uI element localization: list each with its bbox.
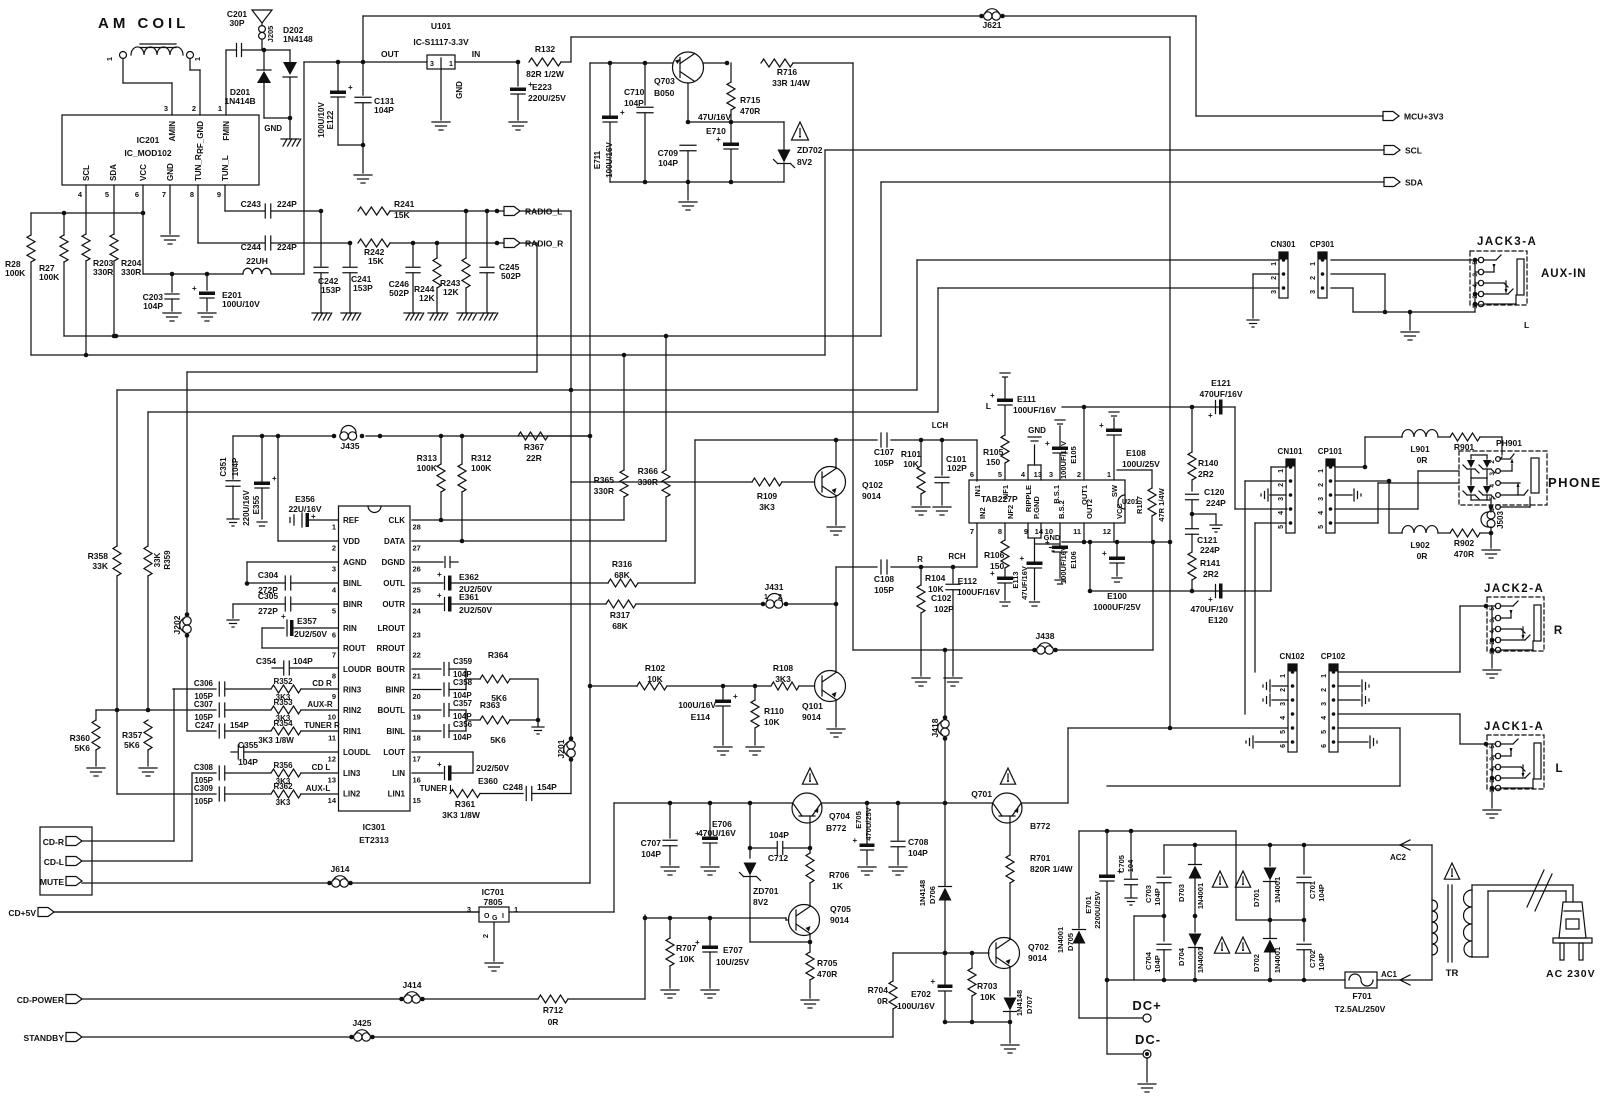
svg-text:105P: 105P: [194, 797, 213, 806]
svg-text:R241: R241: [394, 199, 415, 209]
svg-text:LOUDL: LOUDL: [343, 748, 371, 757]
capacitor C703: [1163, 845, 1165, 874]
svg-text:DC-: DC-: [1135, 1032, 1161, 1047]
svg-text:330R: 330R: [93, 267, 113, 277]
resistor R365: [623, 355, 625, 470]
wire Q102 emitter gnd: [835, 496, 837, 526]
svg-text:1: 1: [1321, 674, 1328, 678]
svg-text:100K: 100K: [5, 268, 26, 278]
input row LIN2 AUX-L: [117, 793, 216, 795]
svg-text:ZD702: ZD702: [797, 145, 823, 155]
svg-text:68K: 68K: [612, 621, 628, 631]
svg-text:1N4001: 1N4001: [1273, 947, 1282, 973]
wire E121 down to CN101 pin4: [1234, 407, 1236, 509]
svg-text:4: 4: [78, 190, 83, 199]
svg-text:7: 7: [332, 651, 336, 660]
ground: [478, 312, 496, 314]
svg-text:C703: C703: [1144, 885, 1153, 903]
svg-text:R716: R716: [777, 67, 798, 77]
svg-text:J621: J621: [983, 20, 1002, 30]
transistor Q701: [992, 793, 1022, 823]
svg-text:2R2: 2R2: [1203, 569, 1219, 579]
svg-text:1N4001: 1N4001: [1273, 877, 1282, 903]
svg-text:153P: 153P: [321, 285, 341, 295]
svg-text:3: 3: [467, 905, 471, 914]
svg-text:105P: 105P: [874, 585, 894, 595]
svg-text:C708: C708: [908, 837, 929, 847]
svg-text:100K: 100K: [471, 463, 492, 473]
wire SDA: [881, 181, 1384, 183]
wire R132 up: [570, 37, 572, 62]
svg-text:1000UF/25V: 1000UF/25V: [1093, 602, 1141, 612]
svg-text:O: O: [484, 913, 490, 920]
svg-text:CP101: CP101: [1318, 447, 1343, 456]
wire RCH link: [835, 567, 837, 604]
band wire y390: [117, 389, 917, 391]
wire J418 column: [943, 648, 948, 653]
svg-text:T2.5AL/250V: T2.5AL/250V: [1335, 1004, 1386, 1014]
svg-text:154P: 154P: [230, 721, 249, 730]
AM coil inductor: [120, 52, 127, 59]
svg-text:J418: J418: [930, 718, 940, 737]
wire CP301 pin3: [1331, 287, 1353, 289]
ground: [1491, 651, 1493, 668]
svg-text:E108: E108: [1126, 448, 1146, 458]
connector CP301: [1318, 252, 1327, 298]
svg-text:+: +: [437, 591, 442, 600]
svg-text:R366: R366: [638, 466, 659, 476]
svg-text:OUTL: OUTL: [383, 579, 405, 588]
resistor R313: [440, 436, 442, 464]
capacitor E113 P.GND: [1027, 523, 1029, 538]
input row RIN3 CD R: [173, 688, 216, 690]
svg-text:1: 1: [193, 57, 202, 61]
svg-text:GND: GND: [166, 163, 175, 181]
wire J435 rail: [233, 435, 335, 437]
svg-text:R132: R132: [535, 44, 556, 54]
bracket BOUTL/BINL: [412, 709, 441, 711]
svg-text:2: 2: [778, 594, 782, 601]
svg-text:R360: R360: [70, 733, 91, 743]
svg-text:100UF/16V: 100UF/16V: [957, 587, 1000, 597]
svg-text:+: +: [931, 977, 936, 986]
wire Q101 area: [590, 685, 637, 687]
ground: [354, 174, 372, 176]
svg-text:E113: E113: [1011, 571, 1020, 588]
input row RIN2 AUX-R: [96, 709, 216, 711]
capacitor C707: [669, 803, 671, 838]
node antenna: [262, 48, 267, 53]
resistor R106: [1004, 523, 1006, 540]
svg-text:33K: 33K: [92, 561, 108, 571]
svg-text:+: +: [1208, 595, 1213, 604]
svg-text:+: +: [281, 612, 286, 621]
wire CP102 pin2 gnd: [1338, 685, 1360, 687]
svg-text:104P: 104P: [641, 849, 661, 859]
wire coil to IC201: [122, 59, 124, 84]
svg-text:D703: D703: [1177, 884, 1186, 902]
DC- terminal: [1106, 980, 1108, 1054]
svg-text:LIN: LIN: [392, 769, 405, 778]
ground: [198, 312, 216, 314]
wire CN102 pin5: [1170, 727, 1288, 729]
svg-text:330R: 330R: [594, 486, 614, 496]
svg-text:RCH: RCH: [948, 552, 966, 561]
wire Q101 emitter gnd: [835, 700, 837, 728]
svg-text:J205: J205: [266, 26, 275, 43]
svg-text:100UF/16V: 100UF/16V: [1059, 441, 1068, 479]
capacitor E362 OUTL: [412, 582, 443, 584]
wire CP101 pin3 gnd: [1335, 494, 1352, 496]
svg-text:C355: C355: [238, 740, 259, 750]
wire CN301 pin1: [917, 259, 1279, 261]
svg-text:C701: C701: [1308, 881, 1317, 899]
capacitor C242: [320, 211, 322, 266]
svg-text:104P: 104P: [453, 733, 472, 742]
svg-text:5: 5: [1321, 730, 1328, 734]
band wire y355 SCL: [31, 354, 825, 356]
svg-text:SDA: SDA: [1405, 178, 1423, 188]
svg-text:5K6: 5K6: [124, 740, 140, 750]
svg-text:SCL: SCL: [1405, 146, 1422, 156]
flag SCL: [1384, 146, 1400, 155]
wire SCL: [825, 149, 1384, 151]
zener ZD901: [1470, 455, 1472, 459]
capacitor C705: [1130, 831, 1132, 878]
svg-text:5: 5: [1489, 607, 1496, 611]
svg-text:2: 2: [481, 934, 490, 938]
svg-text:IN: IN: [472, 49, 481, 59]
transistor Q703: [673, 52, 704, 83]
capacitor C351: [232, 436, 234, 479]
jumper J425: [349, 1035, 354, 1040]
cord to plug: [1471, 885, 1473, 890]
ground: [661, 866, 679, 868]
svg-text:+: +: [620, 108, 625, 117]
svg-text:9014: 9014: [802, 712, 821, 722]
connector CP102: [1329, 664, 1338, 752]
svg-text:100U/16V: 100U/16V: [897, 1001, 935, 1011]
svg-text:2: 2: [1489, 460, 1496, 464]
wire CD-R: [82, 840, 174, 842]
wire AGND pin3: [247, 561, 338, 563]
svg-text:R715: R715: [740, 95, 761, 105]
wire OUT1 riser: [1083, 407, 1085, 480]
svg-text:R104: R104: [925, 573, 946, 583]
svg-text:10U/25V: 10U/25V: [716, 957, 749, 967]
svg-text:2: 2: [192, 104, 196, 113]
bus AC2 row: [1164, 844, 1432, 846]
svg-text:C704: C704: [1144, 951, 1153, 970]
svg-text:9014: 9014: [830, 915, 849, 925]
svg-text:7: 7: [162, 190, 166, 199]
IC301 box ET2313: [339, 506, 411, 811]
svg-text:4: 4: [1472, 284, 1479, 288]
svg-text:R367: R367: [524, 442, 545, 452]
zener ZD701: [749, 803, 751, 858]
svg-text:IC-S1117-3.3V: IC-S1117-3.3V: [413, 37, 469, 47]
ground: [944, 677, 962, 679]
wire 3V3 feed: [303, 62, 305, 274]
svg-text:C309: C309: [194, 784, 214, 793]
svg-text:3K3 1/8W: 3K3 1/8W: [442, 810, 481, 820]
wire VCC riser: [1113, 523, 1115, 542]
wire 8V node: [688, 121, 784, 123]
resistor R359: [147, 412, 149, 546]
svg-text:104P: 104P: [658, 158, 678, 168]
resistor R703: [971, 953, 973, 968]
ground: [163, 312, 181, 314]
svg-text:IC701: IC701: [482, 887, 505, 897]
svg-text:C710: C710: [624, 87, 645, 97]
svg-text:1: 1: [105, 57, 114, 61]
svg-text:Q703: Q703: [654, 76, 675, 86]
wire CN101 pin3 gnd: [1270, 494, 1286, 496]
svg-text:J201: J201: [556, 739, 566, 758]
svg-text:3: 3: [164, 104, 168, 113]
svg-text:NF2: NF2: [1006, 505, 1015, 519]
ground: [457, 312, 475, 314]
ground: [701, 989, 719, 991]
capacitor C107: [880, 433, 882, 447]
jack JACK1-A: [1487, 735, 1544, 789]
svg-text:RIN1: RIN1: [343, 727, 362, 736]
svg-text:AC2: AC2: [1390, 853, 1407, 862]
jumper J621: [979, 14, 984, 19]
svg-text:6: 6: [1280, 744, 1287, 748]
wire D705 column: [1078, 831, 1080, 928]
svg-text:E111: E111: [1017, 394, 1036, 404]
svg-text:ZD701: ZD701: [753, 886, 779, 896]
ground stub: [1192, 513, 1216, 515]
svg-text:502P: 502P: [501, 271, 521, 281]
svg-text:CD+5V: CD+5V: [8, 908, 36, 918]
svg-text:3: 3: [1489, 757, 1496, 761]
resistor R105: [1001, 435, 1009, 463]
svg-text:R902: R902: [1454, 538, 1475, 548]
svg-text:GND: GND: [264, 124, 282, 133]
zener ZD903: [1470, 478, 1472, 485]
wire U101 gnd pin: [440, 69, 442, 120]
capacitor C108: [880, 560, 882, 574]
svg-text:R102: R102: [645, 663, 666, 673]
capacitor C712: [748, 846, 753, 851]
svg-text:TUN_L: TUN_L: [221, 155, 230, 181]
svg-text:R359: R359: [163, 550, 172, 570]
svg-text:3K3: 3K3: [276, 798, 291, 807]
resistor R108: [771, 682, 799, 690]
flags CD box: [40, 827, 92, 895]
ground: [432, 121, 450, 123]
flag RADIO_R: [504, 239, 520, 248]
svg-text:2U2/50V: 2U2/50V: [476, 763, 509, 773]
warning triangle: [792, 122, 809, 140]
svg-text:AUX-R: AUX-R: [307, 700, 333, 709]
svg-text:4: 4: [1489, 768, 1496, 772]
wire to IN2: [976, 523, 978, 567]
ground: [1001, 1044, 1019, 1046]
wire to ground: [687, 182, 689, 200]
svg-text:R356: R356: [273, 761, 293, 770]
svg-text:9: 9: [1024, 527, 1028, 536]
svg-text:VCC: VCC: [1115, 503, 1124, 519]
svg-text:3K3: 3K3: [775, 674, 791, 684]
resistor R316: [608, 579, 638, 587]
wire Q101 collector: [835, 604, 837, 673]
svg-text:RIN3: RIN3: [343, 686, 362, 695]
svg-text:15K: 15K: [368, 256, 384, 266]
svg-text:10K: 10K: [647, 674, 663, 684]
wire CP102 pin3 gnd: [1338, 699, 1360, 701]
svg-text:1N4148: 1N4148: [918, 880, 927, 906]
svg-text:C707: C707: [641, 838, 662, 848]
IC U201 TAB227P: [969, 480, 1125, 523]
svg-text:OUTR: OUTR: [382, 600, 405, 609]
transistor Q702: [989, 938, 1020, 969]
svg-text:GND: GND: [455, 81, 464, 99]
svg-text:6: 6: [135, 190, 139, 199]
resistor R707: [669, 918, 671, 938]
inductor L902: [1402, 526, 1438, 533]
bus top dc: [1079, 830, 1236, 832]
wire J438 up: [1152, 542, 1154, 650]
svg-text:2: 2: [1271, 276, 1278, 280]
wire RCH: [836, 566, 877, 568]
wire SDA pin5: [113, 185, 115, 234]
svg-text:220U/25V: 220U/25V: [528, 93, 566, 103]
resistor R364: [480, 675, 510, 683]
svg-text:R317: R317: [610, 610, 631, 620]
svg-text:3: 3: [1271, 290, 1278, 294]
cord break: [1527, 870, 1544, 907]
svg-text:Q704: Q704: [829, 811, 850, 821]
svg-text:F701: F701: [1352, 991, 1372, 1001]
svg-text:D705: D705: [1066, 933, 1075, 951]
svg-text:0R: 0R: [548, 1017, 559, 1027]
wire Q702 collector: [1009, 938, 1011, 940]
capacitor E120: [1215, 585, 1217, 598]
wire CN102 pin6 gnd: [1255, 741, 1288, 743]
svg-text:CP102: CP102: [1321, 652, 1346, 661]
capacitor E701: [1106, 831, 1108, 874]
resistor R312: [461, 436, 463, 464]
svg-text:BINR: BINR: [343, 600, 363, 609]
svg-text:LOUDR: LOUDR: [343, 665, 372, 674]
svg-text:2: 2: [1321, 688, 1328, 692]
svg-text:102P: 102P: [934, 604, 954, 614]
svg-text:R361: R361: [455, 799, 476, 809]
svg-text:24: 24: [413, 607, 422, 616]
ground: [912, 506, 930, 508]
svg-text:1: 1: [514, 905, 518, 914]
svg-text:E121: E121: [1211, 378, 1231, 388]
svg-text:J438: J438: [1036, 631, 1055, 641]
warning triangles: [1212, 871, 1227, 887]
svg-text:R141: R141: [1200, 558, 1221, 568]
capacitor E355: [260, 434, 265, 439]
svg-text:E705: E705: [854, 811, 863, 829]
wire CN101 pin5: [1255, 522, 1286, 524]
svg-text:C102: C102: [931, 593, 952, 603]
svg-text:19: 19: [413, 713, 421, 722]
flag RADIO_L: [504, 207, 520, 216]
wire IC701 gnd pin2: [493, 922, 495, 961]
diode D201: [257, 69, 271, 71]
svg-text:R106: R106: [984, 550, 1005, 560]
phone contacts: [1496, 457, 1501, 462]
diode D202: [289, 50, 291, 62]
resistor R704: [892, 953, 894, 981]
AC1 arrow: [1377, 979, 1432, 981]
svg-text:100U/16V: 100U/16V: [605, 142, 614, 178]
wire CN301 pin3: [938, 287, 1279, 289]
diode D702: [1269, 920, 1271, 938]
svg-text:4: 4: [1321, 716, 1328, 720]
svg-text:+: +: [990, 569, 995, 578]
wire R316 up to LCH: [694, 440, 696, 583]
warning triangle: [802, 768, 817, 784]
transistor Q101: [815, 671, 846, 702]
svg-text:100U/16V: 100U/16V: [678, 700, 716, 710]
wire R367 down: [589, 63, 591, 883]
resistor R701: [1006, 855, 1014, 883]
svg-text:3: 3: [1489, 619, 1496, 623]
resistor R27: [63, 213, 65, 235]
svg-text:R707: R707: [676, 943, 697, 953]
svg-text:2: 2: [1310, 276, 1317, 280]
svg-text:R901: R901: [1454, 442, 1475, 452]
ground: [933, 506, 951, 508]
ground: [661, 989, 679, 991]
wire MUTE: [82, 882, 331, 884]
ground: [827, 728, 845, 730]
svg-text:L: L: [1555, 763, 1562, 775]
svg-text:E710: E710: [706, 126, 726, 136]
jumper J418: [943, 715, 948, 720]
svg-text:R108: R108: [773, 663, 794, 673]
svg-text:Q705: Q705: [830, 904, 851, 914]
svg-text:C108: C108: [874, 574, 895, 584]
wire to CN301 pin3: [937, 288, 939, 412]
svg-text:220U/16V: 220U/16V: [242, 490, 251, 526]
wire LCH: [695, 439, 877, 441]
ground: [801, 999, 819, 1001]
ground: [1247, 319, 1259, 321]
capacitor E361 OUTR: [412, 603, 443, 605]
resistor R317: [606, 600, 636, 608]
ground: [428, 312, 446, 314]
svg-text:B050: B050: [654, 88, 675, 98]
capacitor E108: [1109, 411, 1119, 413]
svg-text:1: 1: [1107, 470, 1111, 479]
svg-text:3K3: 3K3: [759, 502, 775, 512]
svg-text:6: 6: [1321, 744, 1328, 748]
wire to Q705 base: [644, 915, 646, 999]
bottom bus OUT2: [1062, 541, 1170, 543]
band wire y336 SDA: [64, 335, 881, 337]
svg-text:3: 3: [1318, 497, 1325, 501]
svg-text:330R: 330R: [121, 267, 141, 277]
resistor R109: [571, 481, 752, 483]
svg-text:D707: D707: [1025, 996, 1034, 1014]
svg-text:CN102: CN102: [1280, 652, 1305, 661]
svg-text:CLK: CLK: [389, 516, 406, 525]
wire Q705 emitter: [809, 934, 811, 943]
svg-text:1N4001: 1N4001: [1196, 883, 1205, 909]
input row LIN3 CD L: [192, 772, 216, 774]
capacitor C304: [247, 582, 285, 584]
resistor R141: [1188, 552, 1196, 580]
